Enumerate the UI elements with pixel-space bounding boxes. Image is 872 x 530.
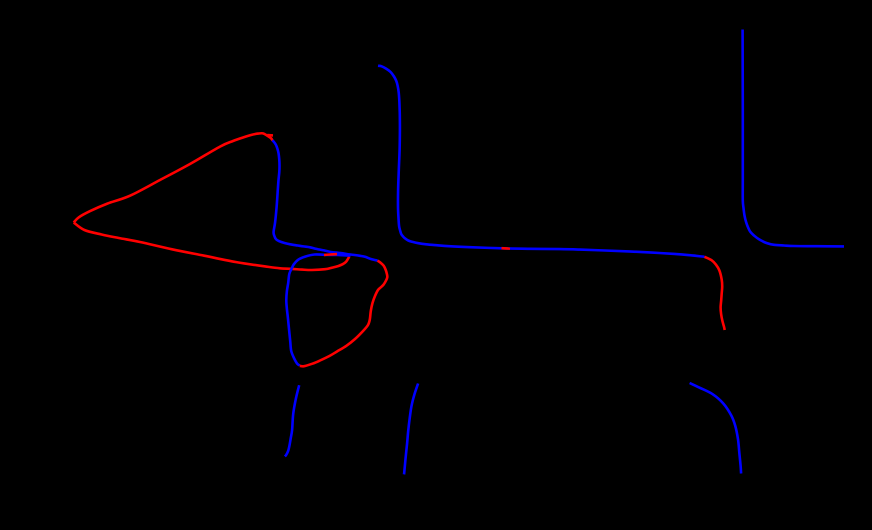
red overlay segment on egg top <box>324 253 337 256</box>
blue curve: apex descending branch to junction <box>272 140 377 260</box>
red curve: egg loop right side <box>300 261 388 367</box>
blue curve: egg loop left side <box>286 254 350 365</box>
red tail descending from horizontal branch <box>705 257 725 330</box>
red curve: teardrop upper branch (cusp to apex) <box>74 133 273 222</box>
blue curve: top-right branch with vertical asymptote <box>743 30 844 247</box>
blue curve: bottom-middle short branch <box>404 384 418 475</box>
blue curve: top-middle branch with vertical asymptote and long horizontal <box>378 66 705 257</box>
red dash on horizontal branch <box>502 247 511 250</box>
red stub at apex <box>267 134 273 137</box>
blue curve: bottom-right short branch <box>690 383 742 474</box>
red curve: teardrop lower branch to lens tip <box>74 223 350 271</box>
blue curve: bottom-left short branch <box>285 385 299 456</box>
